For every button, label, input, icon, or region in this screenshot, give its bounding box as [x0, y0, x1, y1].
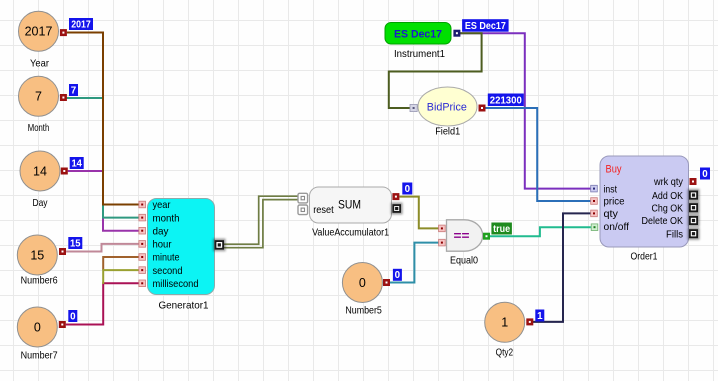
constant Day (14): [20, 151, 60, 209]
connector Generator1.minute: [139, 254, 146, 261]
wire Generator1.out->ValueAccumulator1 inner: [221, 200, 298, 248]
svg-text:BidPrice: BidPrice: [427, 102, 467, 114]
svg-text:year: year: [153, 199, 171, 211]
connector Generator1.month: [139, 214, 146, 221]
connector ValueAccumulator1.out (black): [391, 203, 403, 215]
svg-text:2017: 2017: [71, 19, 91, 30]
wire Day->Generator1.day: [68, 171, 139, 231]
connector Equal0.in1: [439, 225, 446, 232]
connector Field1.out (red): [479, 105, 486, 112]
svg-text:Qty2: Qty2: [496, 347, 514, 359]
connector Generator1.day: [139, 227, 146, 234]
svg-text:qty: qty: [604, 208, 619, 220]
value label 7 (Month): [69, 84, 78, 96]
svg-text:Year: Year: [30, 58, 49, 70]
connector Generator1.hour: [139, 241, 146, 248]
svg-text:Buy: Buy: [606, 163, 623, 175]
connector ValueAccumulator1.reset: [298, 205, 308, 215]
svg-text:Chg OK: Chg OK: [652, 202, 684, 214]
svg-text:Equal0: Equal0: [450, 255, 478, 267]
connector Generator1.out: [213, 239, 226, 252]
svg-text:Fills: Fills: [666, 228, 683, 240]
svg-text:221300: 221300: [490, 95, 523, 106]
svg-text:0: 0: [34, 320, 41, 334]
wire branch Generator1.second: [103, 270, 139, 284]
constant Number5 (0): [342, 263, 382, 317]
value label ES Dec17 (Instrument1): [462, 19, 509, 32]
connector Number6.out: [59, 248, 66, 255]
connector Number5.out: [383, 279, 390, 286]
svg-text:0: 0: [702, 169, 708, 180]
wire Qty2->Order1.qty: [533, 213, 591, 322]
svg-text:7: 7: [35, 90, 42, 104]
svg-text:ES Dec17: ES Dec17: [394, 28, 442, 40]
svg-text:minute: minute: [153, 252, 180, 264]
block Order1: [600, 156, 689, 263]
block ValueAccumulator1: [310, 187, 392, 239]
value label true (Equal0): [491, 223, 512, 235]
wire Instrument1->Field1: [389, 33, 482, 108]
wire Month->Generator1.month: [67, 98, 140, 218]
svg-text:7: 7: [71, 85, 77, 96]
value label 0 (Order1): [700, 168, 710, 180]
value label 221300 (Field1): [488, 94, 524, 107]
connector Order1.Chg OK (black): [687, 202, 699, 214]
svg-text:Field1: Field1: [435, 125, 460, 137]
svg-text:hour: hour: [153, 239, 172, 251]
wire Number5->Equal0.in2: [390, 243, 439, 283]
constant Month (7): [19, 76, 59, 134]
connector Order1.qty (pink): [591, 210, 598, 217]
svg-text:0: 0: [70, 311, 76, 322]
connector Order1.wrk qty (red): [690, 178, 697, 185]
wire Year->Generator1.year: [67, 33, 139, 205]
connector Generator1.second: [139, 267, 146, 274]
svg-text:Add OK: Add OK: [652, 190, 683, 202]
connector Year.out: [60, 29, 67, 36]
svg-text:Number6: Number6: [21, 275, 58, 287]
wire Equal0->Order1.on/off: [490, 227, 591, 236]
svg-text:price: price: [604, 196, 625, 208]
block Instrument1: [385, 23, 451, 60]
connector ValueAccumulator1.in: [298, 193, 308, 203]
value label 0 (Number7): [68, 310, 77, 322]
svg-text:Month: Month: [28, 122, 50, 134]
svg-text:wrk qty: wrk qty: [653, 176, 684, 188]
connector Day.out: [61, 168, 68, 175]
value label 15 (Number6): [68, 237, 82, 249]
connector Order1.price (pink): [591, 198, 598, 205]
wire Number6->Generator1.hour: [66, 244, 139, 252]
wire ValueAccumulator1->Equal0.in1: [400, 197, 439, 229]
svg-text:Delete OK: Delete OK: [642, 215, 684, 227]
svg-text:millisecond: millisecond: [153, 278, 199, 290]
connector Qty2.out: [526, 318, 533, 325]
connector Order1.Add OK (black): [687, 189, 699, 201]
svg-text:14: 14: [33, 164, 47, 178]
value label 1 (Qty2): [535, 310, 544, 322]
svg-text:Number7: Number7: [21, 350, 58, 362]
constant Qty2 (1): [485, 302, 525, 358]
value label 2017 (Year): [69, 18, 93, 30]
value label 0 (Number5): [393, 269, 402, 281]
wire branch Generator1.minute: [103, 257, 139, 270]
connector Instrument1.out (navy): [453, 30, 460, 37]
svg-text:ES Dec17: ES Dec17: [465, 21, 506, 32]
svg-text:ValueAccumulator1: ValueAccumulator1: [312, 227, 389, 239]
svg-text:true: true: [493, 224, 510, 235]
wire Generator1.out->ValueAccumulator1 outer: [221, 196, 298, 244]
connector Field1.in: [410, 104, 417, 111]
svg-text:15: 15: [30, 248, 44, 262]
svg-text:day: day: [153, 225, 170, 237]
svg-text:month: month: [153, 212, 180, 224]
value label 14 (Day): [70, 157, 84, 169]
svg-text:Order1: Order1: [631, 251, 658, 263]
svg-text:on/off: on/off: [604, 221, 630, 233]
svg-text:1: 1: [501, 316, 508, 330]
svg-text:Instrument1: Instrument1: [394, 48, 445, 60]
constant Year (2017): [19, 11, 59, 69]
svg-text:0: 0: [395, 270, 401, 281]
block Field1 (BidPrice): [418, 87, 477, 137]
svg-text:15: 15: [70, 238, 81, 249]
wire Instrument1->Order1.inst: [460, 33, 591, 188]
gate Equal0: [447, 220, 483, 267]
block Generator1: [148, 199, 215, 312]
svg-text:==: ==: [454, 228, 470, 243]
connector ValueAccumulator1.value (red): [392, 193, 399, 200]
connector Equal0.out (green): [483, 233, 490, 240]
connector Order1.Delete OK (black): [687, 214, 699, 226]
svg-text:SUM: SUM: [338, 200, 361, 212]
svg-text:Day: Day: [33, 197, 49, 209]
svg-text:Number5: Number5: [345, 305, 382, 317]
svg-text:2017: 2017: [25, 25, 53, 39]
connector Order1.Fills (black): [687, 228, 699, 240]
connector Month.out: [60, 94, 67, 101]
svg-text:0: 0: [405, 184, 411, 195]
connector Order1.inst (lavender): [591, 185, 598, 192]
wire Field1->Order1.price: [486, 108, 591, 201]
connector Generator1.millisecond: [139, 280, 146, 287]
connector Order1.on/off (green): [591, 224, 598, 231]
wire Number7->Generator1.millisecond: [66, 283, 139, 324]
connector Equal0.in2: [439, 239, 446, 246]
connector Number7.out: [59, 321, 66, 328]
constant Number6 (15): [17, 235, 57, 287]
svg-text:Generator1: Generator1: [159, 300, 209, 312]
value label 0 (ValueAccumulator1): [402, 183, 412, 195]
svg-text:0: 0: [359, 276, 366, 290]
svg-text:second: second: [153, 265, 183, 277]
svg-text:inst: inst: [604, 183, 618, 195]
svg-text:reset: reset: [313, 204, 334, 216]
svg-text:14: 14: [71, 158, 82, 169]
connector Generator1.year: [139, 201, 146, 208]
svg-text:1: 1: [537, 311, 543, 322]
constant Number7 (0): [17, 307, 57, 362]
